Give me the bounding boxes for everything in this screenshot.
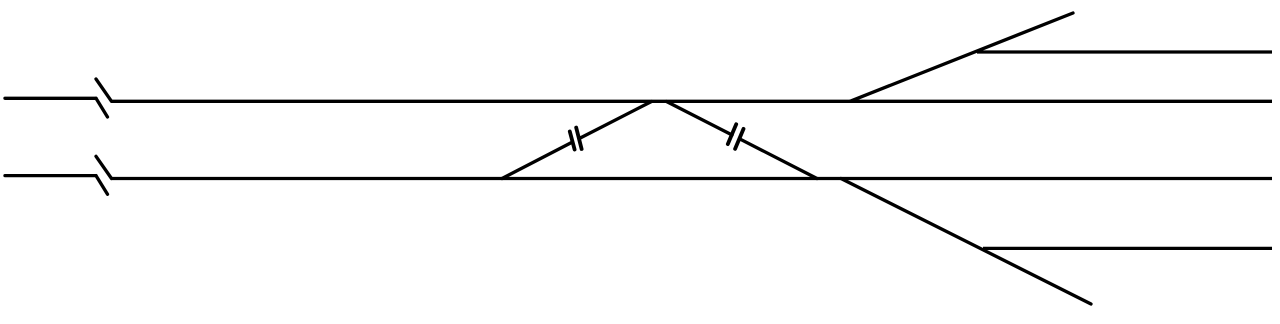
wire top siding [977,50,1272,53]
wire top track main line [112,100,1273,103]
capacitor C2 right plate [735,129,743,149]
break symbol top track lower slash [96,98,108,117]
wire crossover right diagonal upper segment [667,102,733,136]
capacitor C1 left plate (insulated joint on left crossover) [570,132,575,150]
wire top turnout diagonal [850,13,1073,101]
wire crossover left diagonal upper segment [580,102,652,139]
break symbol bottom track lower slash [96,176,108,195]
capacitor C2 left plate (insulated joint on right crossover) [728,124,736,144]
wire bottom siding [983,247,1272,250]
wire bottom turnout diagonal [841,179,1091,305]
break symbol bottom track upper slash [96,156,112,178]
wire top track left stub [5,97,96,100]
wire bottom track main line [112,177,1273,180]
wire crossover right diagonal lower segment [739,139,817,179]
wire bottom track left stub [5,174,96,177]
capacitor C1 right plate [576,128,581,149]
break symbol top track upper slash [96,79,112,101]
wire crossover left diagonal lower segment [502,142,573,179]
